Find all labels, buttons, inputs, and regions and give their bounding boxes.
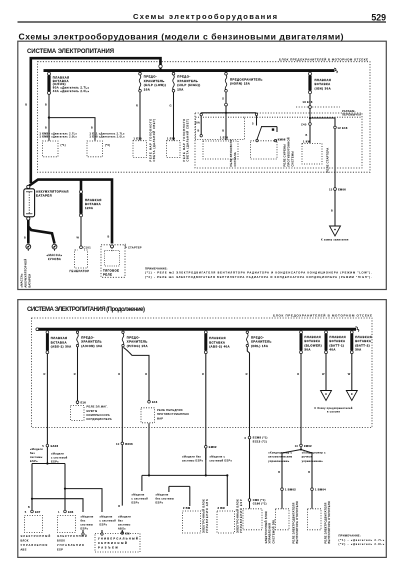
main bus bar S2	[37, 328, 357, 331]
svg-text:«Модели без: «Модели без	[182, 454, 202, 458]
battery label	[36, 189, 69, 197]
switch connectors	[256, 139, 258, 141]
svg-text:ПРИМЕЧАНИЕ:: ПРИМЕЧАНИЕ:	[145, 266, 168, 270]
svg-text:3 ВМ: 3 ВМ	[218, 506, 225, 510]
svg-text:W: W	[77, 236, 80, 240]
svg-text:системы: системы	[118, 524, 131, 527]
A/CON label	[81, 336, 102, 348]
svg-text:B: B	[308, 470, 310, 474]
svg-text:ЭЛЕКТРОННЫЙ БЛОК: ЭЛЕКТРОННЫЙ БЛОК	[235, 499, 239, 533]
connector on main cable	[159, 65, 162, 68]
svg-text:К блоку предохранителей: К блоку предохранителей	[315, 406, 353, 410]
wire DRL down	[247, 347, 249, 436]
svg-text:АВS: АВS	[21, 547, 27, 551]
svg-text:120А: 120А	[85, 206, 93, 210]
svg-text:ВЕНТИЛЯТОРА ОТОПИТЕЛЯ: ВЕНТИЛЯТОРА ОТОПИТЕЛЯ	[295, 501, 299, 543]
svg-text:КМ06: КМ06	[278, 137, 286, 141]
connector C40	[309, 123, 312, 126]
svg-text:КОНДИЦИОНЕРА: КОНДИЦИОНЕРА	[87, 417, 112, 421]
svg-text:ESP»: ESP»	[30, 459, 38, 463]
svg-text:СТАРТЕР: СТАРТЕР	[128, 245, 142, 249]
triangles label	[315, 406, 353, 414]
svg-text:529: 529	[371, 12, 386, 22]
fusible link IGN	[309, 72, 312, 94]
svg-text:10А: 10А	[144, 87, 150, 91]
svg-text:B: B	[45, 103, 47, 107]
svg-text:(A/CON) 10А: (A/CON) 10А	[81, 344, 102, 348]
connector KM usr	[121, 532, 124, 535]
blower relay 1 (dashed box)	[276, 509, 290, 530]
svg-text:СВЕТА (ДАЛЬНИЙ СВЕТ): СВЕТА (ДАЛЬНИЙ СВЕТ)	[186, 119, 190, 162]
note S1	[145, 266, 372, 278]
bus2 end slashes	[356, 327, 359, 332]
svg-text:ЭЛЕКТРОННЫЙ БЛОК: ЭЛЕКТРОННЫЙ БЛОК	[264, 511, 268, 544]
blower relay 2 (dashed box)	[308, 509, 322, 530]
starter cable connector	[111, 245, 114, 248]
svg-text:1: 1	[58, 510, 60, 514]
generator wire	[80, 217, 82, 246]
C/FUS label	[53, 75, 90, 93]
BATT-1 label	[329, 335, 346, 352]
H/LP LOW label	[144, 75, 166, 92]
starter relay wire	[309, 125, 311, 143]
svg-text:ФАР: ФАР	[157, 416, 163, 420]
svg-text:B: B	[278, 470, 280, 474]
120A label	[85, 198, 102, 210]
svg-text:R: R	[145, 372, 147, 376]
blower relay wires	[282, 491, 312, 509]
svg-text:B: B	[331, 209, 333, 213]
svg-text:(ABS-2) 40А: (ABS-2) 40А	[209, 345, 230, 349]
svg-text:B: B	[108, 235, 110, 239]
option texts mid	[132, 492, 175, 504]
svg-text:(*1): (*1)	[61, 143, 66, 147]
svg-text:УНИВЕРСАЛЬНЫЙ: УНИВЕРСАЛЬНЫЙ	[98, 536, 138, 540]
ground bolt body	[52, 244, 57, 251]
junction on rail	[225, 112, 227, 114]
svg-text:(*2): (*2)	[105, 143, 110, 147]
positive cable branch	[29, 180, 112, 244]
fusible link C/FUS	[48, 72, 51, 94]
starter box (dashed)	[101, 245, 125, 277]
P/FOG label	[127, 336, 148, 348]
svg-text:ПРОТИВОТУМАННЫХ: ПРОТИВОТУМАННЫХ	[157, 412, 189, 416]
svg-text:РЕЛЕ: РЕЛЕ	[103, 272, 112, 276]
fuse H/LP LOW	[139, 72, 142, 92]
svg-text:ЕSР: ЕSР	[57, 547, 63, 551]
front fog relay (dashed box)	[141, 408, 155, 423]
svg-text:КУЗОВА: КУЗОВА	[48, 257, 61, 261]
starter label corner	[125, 244, 127, 247]
svg-text:1 Е09: 1 Е09	[167, 136, 176, 140]
svg-text:в салоне: в салоне	[327, 410, 340, 413]
abs ecu (dashed box)	[183, 511, 201, 533]
svg-text:АККУМУЛЯТОРНОЙ: АККУМУЛЯТОРНОЙ	[24, 258, 28, 287]
fuse A/CON	[76, 331, 78, 347]
wire from H/LP LOW	[139, 92, 141, 140]
svg-text:1 ВМ04: 1 ВМ04	[315, 488, 326, 492]
svg-text:ПРОТИВОУГОННОЙ: ПРОТИВОУГОННОЙ	[287, 137, 291, 166]
svg-text:ЕС13 (*2): ЕС13 (*2)	[253, 439, 267, 443]
ignition feed wire	[334, 129, 336, 226]
fusible link 120A	[80, 190, 83, 217]
connector EM06	[334, 188, 337, 191]
note S2	[339, 533, 385, 546]
svg-text:G: G	[170, 104, 172, 108]
svg-text:10: 10	[116, 442, 120, 446]
H/LP HIGH label	[177, 75, 200, 92]
connector 12 E16	[334, 126, 337, 129]
wire ABS-2 down	[205, 354, 207, 460]
svg-text:РЕЛЕ ФАР ГОЛОВНОГО: РЕЛЕ ФАР ГОЛОВНОГО	[148, 119, 152, 162]
wire BATT-1 down	[325, 354, 327, 390]
engine-compartment fuse box (dashed) S1	[38, 62, 371, 173]
rotated label drl ecu	[264, 511, 276, 544]
svg-text:ESP»: ESP»	[132, 500, 140, 504]
horn wire into box	[225, 106, 227, 140]
svg-text:R: R	[118, 504, 120, 508]
svg-text:СМ6 (*1): СМ6 (*1)	[253, 498, 266, 502]
svg-text:СВЕТА (ДАЛЬНИЙ СВЕТ): СВЕТА (ДАЛЬНИЙ СВЕТ)	[152, 119, 156, 162]
svg-text:1 КМ: 1 КМ	[303, 140, 310, 144]
option texts blower	[268, 450, 326, 462]
svg-text:(*1) - «Двигатель 2.7L»: (*1) - «Двигатель 2.7L»	[339, 538, 385, 542]
jumper label	[342, 109, 361, 117]
svg-text:без: без	[118, 519, 123, 523]
svg-text:УПРАВЛЕНИЯ: УПРАВЛЕНИЯ	[57, 543, 84, 547]
wire P/FOG right branch	[123, 347, 149, 402]
junction rail488	[64, 488, 66, 490]
connector labels fan relay 1	[40, 131, 78, 138]
svg-text:«Модели с: «Модели с	[210, 454, 226, 458]
svg-text:СИСТЕМОЙ DRL: СИСТЕМОЙ DRL	[272, 519, 276, 544]
rotated label horn relay	[229, 139, 237, 166]
fog relay pass-through wire	[148, 423, 150, 475]
section 1 frame	[18, 41, 387, 289]
svg-text:УПРАВЛЕНИЯ ЕSР: УПРАВЛЕНИЯ ЕSР	[239, 499, 243, 533]
rail y488	[65, 489, 102, 512]
usr stub pins	[83, 530, 122, 534]
siren relay (dashed box)	[251, 141, 278, 159]
fog relay label	[157, 408, 189, 420]
svg-text:С101: С101	[84, 246, 92, 250]
rotated label headlamp high	[182, 119, 190, 162]
svg-text:РЕЛЕ ЭЛЕКТРОДВИГАТЕЛЯ: РЕЛЕ ЭЛЕКТРОДВИГАТЕЛЯ	[291, 502, 295, 543]
svg-text:R: R	[297, 372, 299, 376]
wire BATT-2 down	[351, 354, 353, 390]
svg-text:1 КМ80 «Двигатель 2.0L»: 1 КМ80 «Двигатель 2.0L»	[40, 135, 78, 139]
IGN label	[315, 78, 332, 90]
svg-text:АВS»: АВS»	[118, 527, 126, 531]
svg-text:R: R	[118, 372, 120, 376]
ac compressor relay (dashed box)	[71, 406, 85, 421]
svg-text:(DRL) 15А: (DRL) 15А	[251, 344, 268, 348]
rotated label headlamp low	[148, 119, 156, 162]
main cable to bus	[159, 68, 161, 71]
svg-text:без системы: без системы	[156, 496, 175, 500]
engine-compartment fuse box S2 (dashed)	[32, 318, 373, 428]
main bus bar S1	[44, 69, 335, 72]
svg-text:«Кондиционер с: «Кондиционер с	[302, 450, 326, 454]
svg-text:6: 6	[245, 436, 247, 440]
usr pin circles	[82, 533, 84, 535]
branch wire to right	[49, 118, 95, 141]
svg-text:БЛОК ПРЕДОХРАНИТЕЛЕЙ В МОТОРНО: БЛОК ПРЕДОХРАНИТЕЛЕЙ В МОТОРНОМ ОТСЕКЕ	[279, 58, 368, 62]
starter relay (dashed box)	[302, 144, 322, 165]
solenoid label	[103, 268, 119, 276]
connector CM6	[248, 499, 251, 502]
svg-text:РЕЛЕ ЭЛ.МАГ.: РЕЛЕ ЭЛ.МАГ.	[87, 405, 108, 409]
svg-text:B: B	[91, 126, 93, 130]
rail1	[142, 475, 227, 506]
junction abs2 rail	[205, 474, 207, 476]
wire P/FOG left	[121, 347, 123, 506]
wire ABS-1 down	[46, 354, 48, 445]
svg-text:15А: 15А	[177, 87, 183, 91]
rotated ground label battery	[20, 258, 32, 287]
svg-text:R: R	[202, 372, 204, 376]
connector on jumper	[309, 106, 312, 109]
svg-text:ЕМ02: ЕМ02	[209, 445, 217, 449]
svg-text:B: B	[198, 128, 200, 132]
rail to ignition wire	[310, 118, 335, 126]
solenoid (inner dashed)	[105, 251, 120, 267]
svg-text:МУФТЫ: МУФТЫ	[87, 409, 98, 413]
esp control unit (dashed box)	[57, 515, 75, 532]
connector E37	[31, 510, 34, 513]
svg-text:(IGN) 30А: (IGN) 30А	[315, 86, 332, 90]
junction rail1 right	[226, 474, 228, 476]
generator (dashed box)	[75, 250, 88, 268]
body ground label	[46, 253, 62, 261]
svg-text:(P/FOG) 15А: (P/FOG) 15А	[127, 344, 148, 348]
usr label	[98, 536, 138, 549]
ground bolt battery	[26, 244, 31, 251]
svg-text:управлением»: управлением»	[268, 459, 289, 463]
svg-text:СЕРВИСНЫЙ: СЕРВИСНЫЙ	[98, 541, 127, 545]
headlamp relay low (dashed box)	[133, 141, 147, 158]
horn relay (dashed box)	[203, 141, 238, 159]
svg-text:РЕЛЕ ЗВУКОВОГО: РЕЛЕ ЗВУКОВОГО	[229, 139, 233, 166]
generator connector	[80, 246, 83, 249]
svg-text:Е16: Е16	[152, 400, 158, 404]
svg-text:РЕЛЕ СТАРТЕРА: РЕЛЕ СТАРТЕРА	[325, 148, 329, 173]
rail2	[169, 486, 190, 506]
connector E16 fog	[148, 401, 151, 404]
svg-text:СИГНАЛА: СИГНАЛА	[233, 152, 237, 166]
junction IGN rail	[309, 117, 311, 119]
svg-text:ESP»: ESP»	[81, 527, 89, 531]
svg-text:Е36: Е36	[68, 510, 74, 514]
fuse HORN	[225, 72, 228, 92]
svg-text:(HORN) 15А: (HORN) 15А	[230, 82, 250, 86]
abs unit label	[21, 534, 51, 552]
svg-text:СИСТЕМА ЭЛЕКТРОПИТАНИЯ: СИСТЕМА ЭЛЕКТРОПИТАНИЯ	[27, 49, 114, 55]
svg-text:R: R	[44, 372, 46, 376]
svg-text:W: W	[322, 372, 325, 376]
fuse P/FOG	[122, 331, 124, 347]
junction rail1 left	[148, 474, 150, 476]
svg-text:ВЕНТИЛЯТОРА ОТОПИТЕЛЯ: ВЕНТИЛЯТОРА ОТОПИТЕЛЯ	[327, 501, 331, 543]
svg-text:БЛОК ПРЕДОХРАНИТЕЛЕЙ В МОТОРНО: БЛОК ПРЕДОХРАНИТЕЛЕЙ В МОТОРНОМ ОТСЕКЕ	[273, 313, 372, 317]
svg-text:30А: 30А	[355, 348, 361, 352]
120A link drop	[80, 180, 83, 191]
esp unit label	[57, 534, 87, 552]
svg-text:(*1) - РЕЛЕ №2 ЭЛЕКТРОДВИГАТЕЛ: (*1) - РЕЛЕ №2 ЭЛЕКТРОДВИГАТЕЛЯ ВЕНТИЛЯТ…	[145, 271, 372, 275]
BATT-2 label	[355, 335, 372, 352]
svg-text:13 Е16: 13 Е16	[303, 100, 313, 104]
svg-text:«МАССА»: «МАССА»	[20, 273, 24, 288]
svg-text:5: 5	[252, 121, 254, 125]
rotated label siren relay	[283, 137, 295, 166]
connector BM02	[281, 488, 284, 491]
fan relay 1 (dashed box)	[43, 141, 59, 157]
rail end connector	[255, 113, 257, 115]
rotated label blower relay 1	[291, 501, 299, 543]
svg-text:С196 (*2): С196 (*2)	[253, 502, 267, 506]
svg-text:B: B	[24, 236, 26, 240]
svg-text:ВХ06: ВХ06	[125, 442, 133, 446]
svg-text:ПРИМЕЧАНИЕ:: ПРИМЕЧАНИЕ:	[339, 533, 361, 537]
svg-text:УПРАВЛЕНИЯ: УПРАВЛЕНИЯ	[21, 543, 48, 547]
bus2 start connector	[36, 328, 39, 331]
svg-text:ГЕНЕРАТОР: ГЕНЕРАТОР	[70, 269, 90, 273]
connector E36	[64, 510, 67, 513]
svg-text:B: B	[45, 126, 47, 130]
fusible link BATT-1	[325, 331, 328, 354]
svg-text:РЕЛЕ ФАР ГОЛОВНОГО: РЕЛЕ ФАР ГОЛОВНОГО	[182, 119, 186, 162]
svg-text:РЕЛЕ СИРЕНЫ: РЕЛЕ СИРЕНЫ	[283, 144, 287, 167]
svg-text:УПРАВЛЕНИЯ АВS: УПРАВЛЕНИЯ АВS	[205, 499, 209, 533]
svg-text:РАЗЪЕМ-: РАЗЪЕМ-	[342, 109, 356, 113]
rotated label esp ecu	[235, 499, 243, 533]
svg-text:системой ESP»: системой ESP»	[210, 459, 233, 463]
svg-text:ESP»: ESP»	[156, 500, 164, 504]
svg-text:15: 15	[329, 187, 333, 191]
svg-text:1 ВМ02: 1 ВМ02	[285, 488, 296, 492]
svg-text:РАЗЪЕМ: РАЗЪЕМ	[98, 546, 118, 550]
fan relay 2 (dashed box)	[87, 141, 103, 157]
triangle BATT-1	[321, 391, 332, 401]
svg-text:с системой: с системой	[132, 496, 149, 500]
svg-text:с системой: с системой	[100, 519, 117, 523]
headlamp relay high (dashed box)	[167, 141, 181, 158]
wire into drl ecu	[249, 501, 251, 508]
header rule	[18, 21, 387, 23]
ABS-1 lower: connector EA08	[46, 444, 49, 447]
svg-text:управлением»: управлением»	[302, 459, 323, 463]
svg-text:Е37: Е37	[35, 510, 41, 514]
connector E16 ac	[76, 401, 79, 404]
svg-text:40А: 40А	[329, 348, 335, 352]
wire DRL lower	[249, 439, 251, 499]
svg-text:R: R	[74, 372, 76, 376]
svg-text:БАТАРЕИ: БАТАРЕИ	[27, 274, 31, 288]
starter wire stub	[111, 248, 113, 252]
svg-text:30А: 30А	[304, 348, 310, 352]
connector BX06	[121, 442, 124, 445]
svg-text:Схемы электрооборудования (мод: Схемы электрооборудования (модели с бенз…	[19, 31, 344, 41]
svg-text:R: R	[246, 372, 248, 376]
svg-text:(ABS-1) 30А: (ABS-1) 30А	[51, 345, 72, 349]
wire from IGN link	[309, 94, 311, 123]
svg-text:СИСТЕМА ЭЛЕКТРОПИТАНИЯ (Продол: СИСТЕМА ЭЛЕКТРОПИТАНИЯ (Продолжение)	[27, 307, 145, 313]
svg-text:Схемы электрооборудования: Схемы электрооборудования	[133, 12, 277, 21]
fuse DRL	[246, 331, 248, 347]
svg-text:БАТАРЕЯ: БАТАРЕЯ	[36, 193, 52, 197]
svg-text:«Модели: «Модели	[100, 515, 113, 519]
fuse H/LP HIGH	[172, 72, 175, 92]
blower split junction	[300, 449, 302, 451]
abs control unit (dashed box)	[25, 515, 43, 532]
svg-text:ЭЛЕКТРОННЫЙ БЛОК: ЭЛЕКТРОННЫЙ БЛОК	[201, 499, 205, 533]
wire A/CON down	[77, 347, 79, 404]
svg-text:БЛОК: БЛОК	[57, 538, 65, 542]
rotated label blower relay 2	[323, 501, 331, 543]
svg-text:с системой: с системой	[51, 455, 68, 459]
negative cable	[28, 220, 54, 243]
rail inside relay box	[201, 112, 256, 114]
svg-text:1 Е05 «Двигатель 2.0L»: 1 Е05 «Двигатель 2.0L»	[90, 135, 126, 139]
svg-text:РЕЛЕ ПЕРЕДНИХ: РЕЛЕ ПЕРЕДНИХ	[157, 408, 183, 412]
svg-text:12 Е16: 12 Е16	[338, 126, 348, 130]
svg-text:2 ВМ: 2 ВМ	[183, 506, 190, 510]
junction abs1 left	[46, 462, 48, 464]
svg-text:5: 5	[25, 510, 27, 514]
svg-text:системы: системы	[81, 524, 94, 527]
svg-text:ESP»: ESP»	[51, 459, 59, 463]
svg-text:УПРАВЛЕНИЯ: УПРАВЛЕНИЯ	[268, 523, 272, 544]
fusible link BATT-2	[350, 331, 353, 354]
svg-text:G: G	[222, 97, 224, 101]
svg-text:1 Е19: 1 Е19	[134, 136, 143, 140]
wire from H/LP HIGH	[173, 92, 175, 140]
svg-text:БЛОК: БЛОК	[21, 538, 29, 542]
ABS-1 label	[51, 336, 72, 349]
connector labels fan relay 2	[90, 131, 126, 138]
svg-text:«Модели: «Модели	[118, 515, 131, 519]
ac relay label	[87, 405, 112, 422]
svg-text:системы: системы	[30, 456, 43, 459]
option texts abs1	[30, 447, 68, 463]
fusible link BLOWER	[300, 331, 303, 354]
svg-text:B: B	[28, 505, 30, 509]
svg-text:B: B	[306, 133, 308, 137]
inner sub box (dashed)	[196, 117, 245, 139]
svg-text:ПЕРЕМЫЧКА: ПЕРЕМЫЧКА	[342, 113, 361, 117]
svg-text:Е16: Е16	[81, 400, 87, 404]
svg-text:ЕА08: ЕА08	[51, 444, 59, 448]
svg-text:ЭЛЕКТРОННЫЙ: ЭЛЕКТРОННЫЙ	[21, 534, 51, 538]
esp ecu (dashed box)	[217, 511, 235, 533]
section 2 frame	[18, 300, 387, 558]
relay sub box (dashed)	[195, 113, 362, 168]
option texts ABS-2	[182, 454, 232, 462]
svg-text:«Модели: «Модели	[81, 515, 94, 519]
abs2 wire to rail	[205, 448, 207, 475]
battery main cable (thick)	[31, 58, 161, 183]
option texts above usr	[81, 515, 132, 531]
svg-text:системы ESP»: системы ESP»	[182, 459, 204, 463]
svg-text:W: W	[348, 372, 351, 376]
connector triangle to ignition switch	[330, 226, 341, 236]
svg-text:(*2) - РЕЛЕ №1 ЭЛЕКТРОДВИГАТЕЛ: (*2) - РЕЛЕ №1 ЭЛЕКТРОДВИГАТЕЛЯ ВЕНТИЛЯТ…	[145, 275, 372, 279]
abs1 split	[32, 447, 65, 510]
DRL label	[251, 336, 272, 348]
bus end slashes	[334, 68, 337, 73]
svg-text:B: B	[25, 103, 27, 107]
svg-text:«Кондиционер с: «Кондиционер с	[268, 450, 292, 454]
